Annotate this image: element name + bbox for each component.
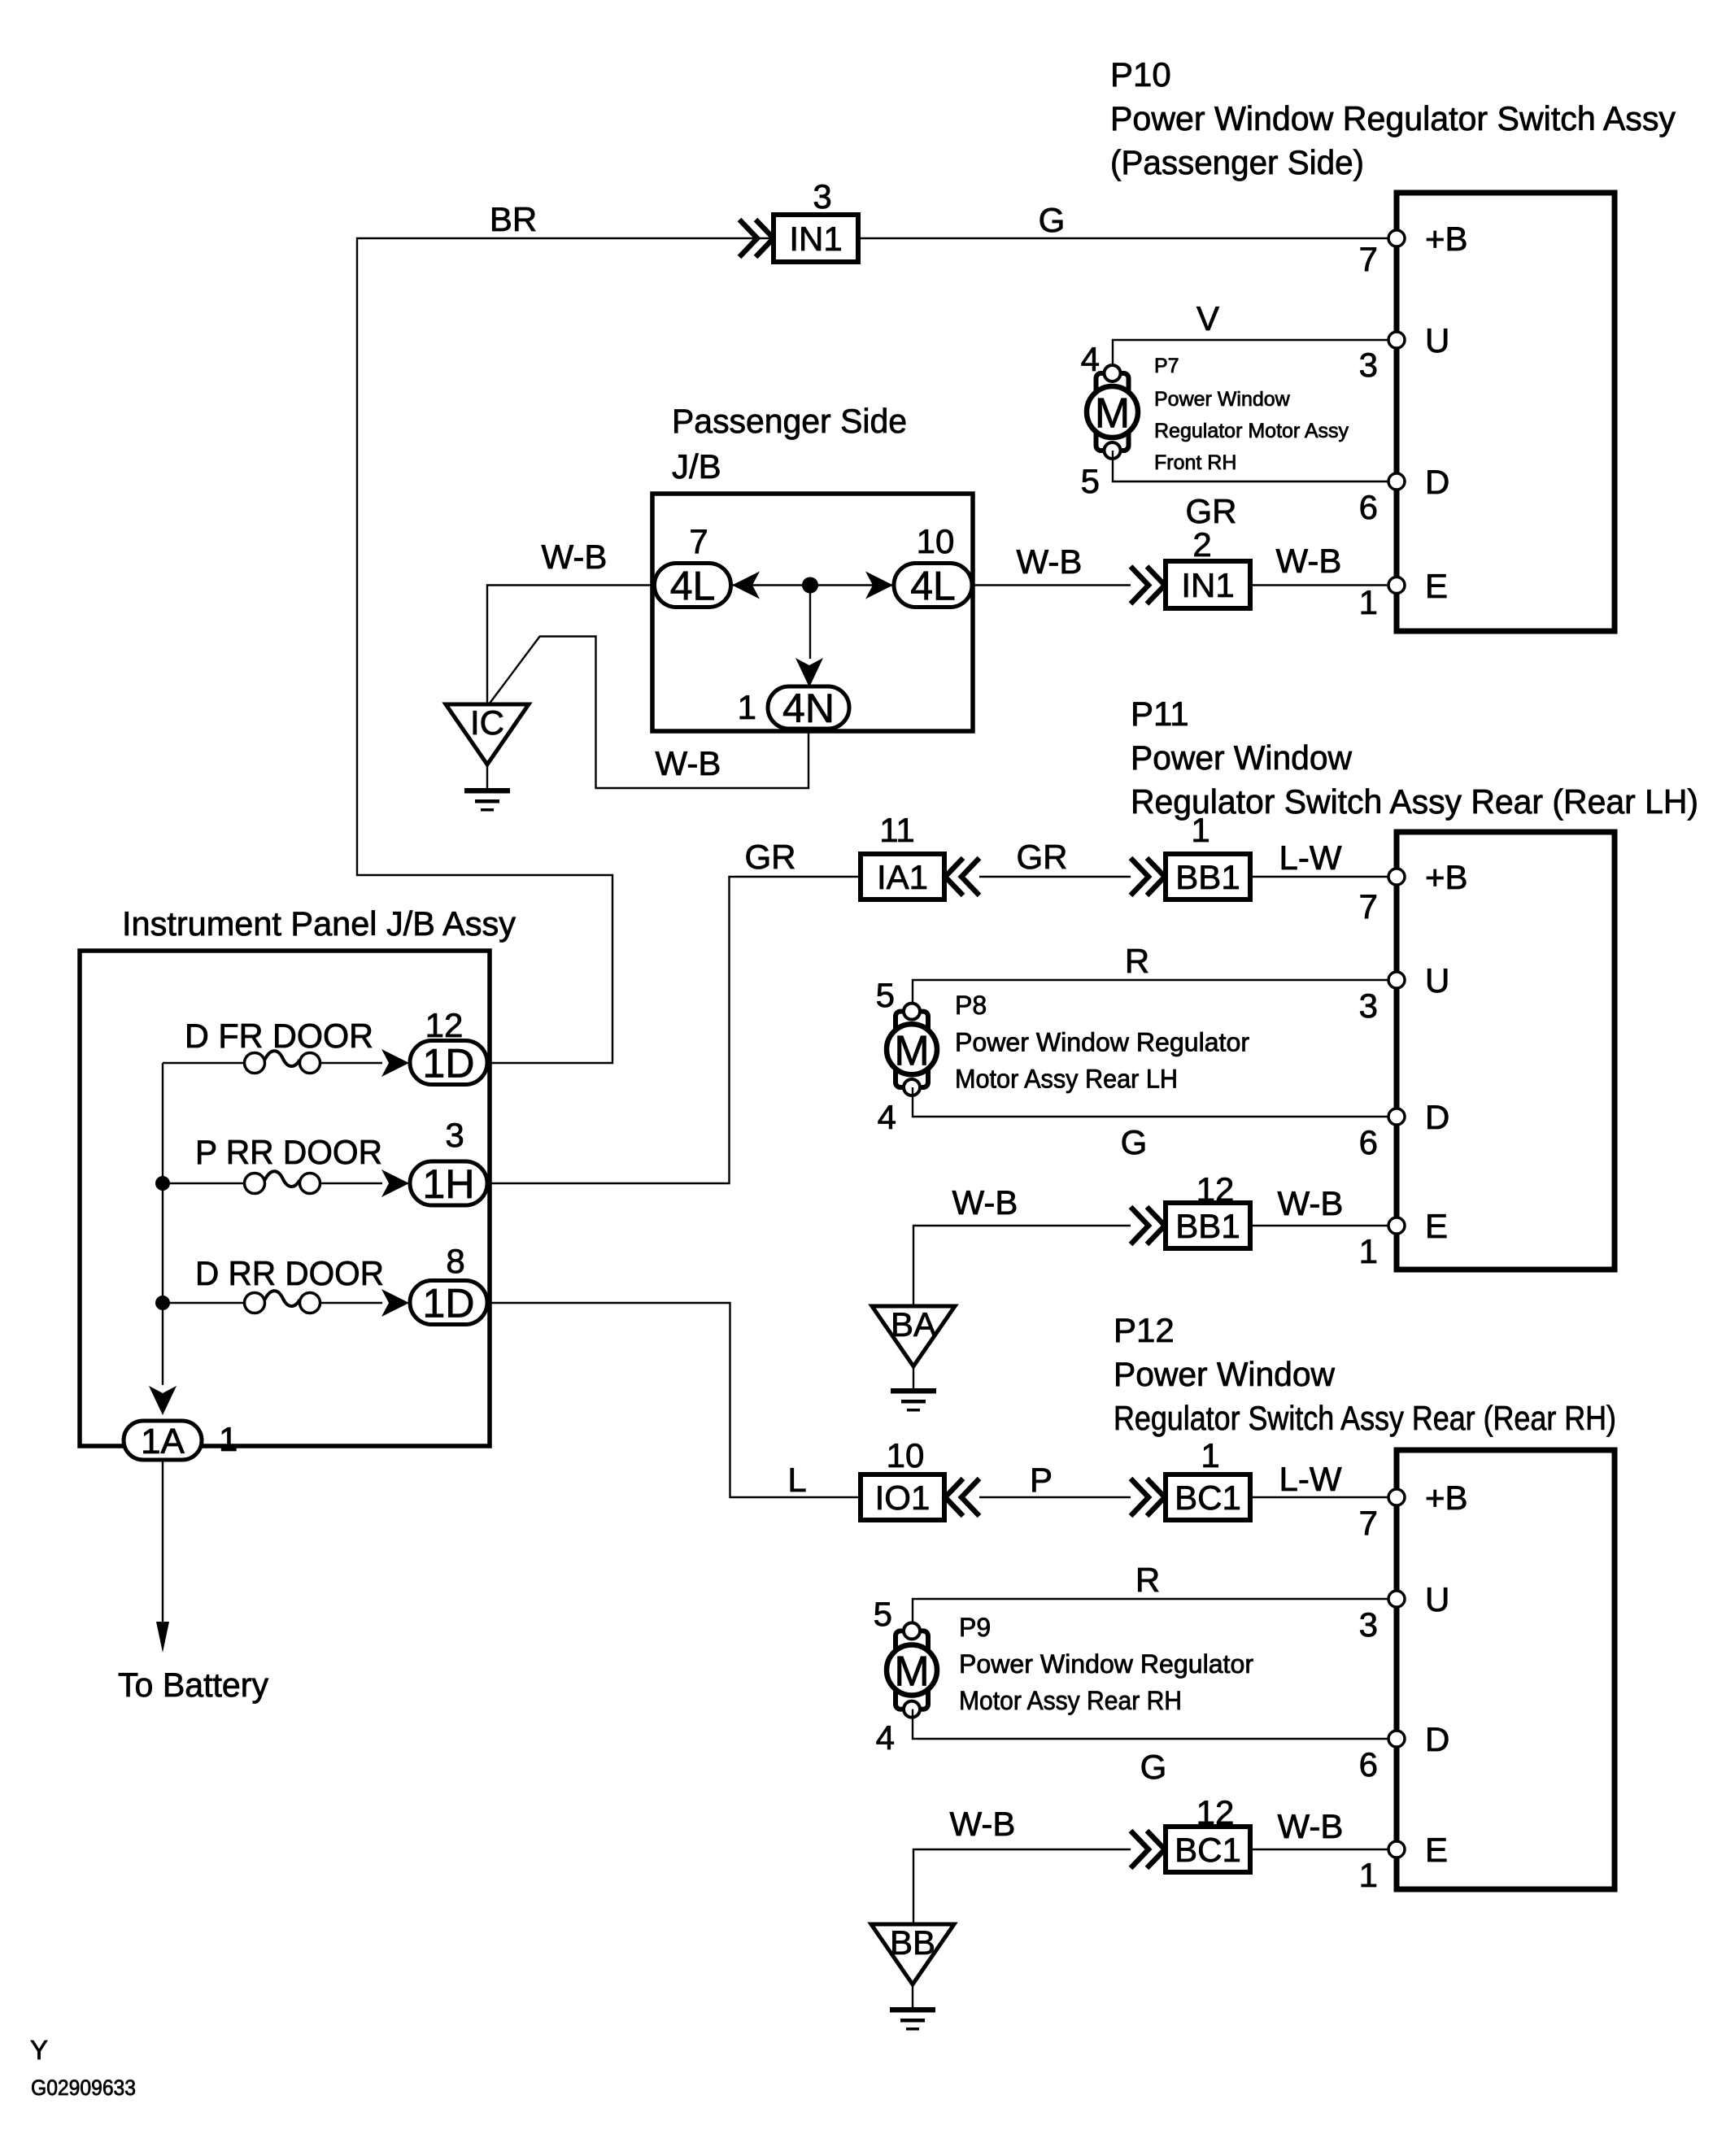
connector oval 1D pin 8 [410,1281,487,1325]
svg-text:(Passenger Side): (Passenger Side) [1110,143,1364,181]
connector IN1 pin 2 [1166,561,1250,608]
svg-text:3: 3 [1359,987,1378,1025]
svg-text:D: D [1425,1720,1449,1758]
arrow into 4L-7 [732,572,760,599]
svg-text:R: R [1125,942,1149,980]
svg-text:V: V [1196,299,1219,338]
splice chevrons into BC1-12 [1131,1831,1165,1868]
svg-text:R: R [1135,1561,1160,1599]
svg-text:W-B: W-B [1276,542,1342,580]
svg-text:5: 5 [1081,462,1100,500]
splice chevrons out of IO1 [945,1479,979,1516]
svg-text:4L: 4L [670,564,716,609]
svg-text:GR: GR [745,838,796,876]
ground symbol BB [890,2007,935,2013]
pin +B P11 [1388,869,1405,885]
splice chevrons out of IA1 [945,858,979,895]
ground symbol IC [464,788,510,794]
svg-text:G: G [1039,201,1066,239]
connector oval 1H pin 3 [410,1161,487,1205]
svg-text:E: E [1425,1207,1448,1245]
wire 1A to battery [162,1460,163,1623]
svg-text:M: M [1095,390,1130,438]
svg-text:1: 1 [738,688,756,726]
svg-text:Power Window: Power Window [1154,388,1291,411]
svg-text:1D: 1D [423,1041,475,1087]
svg-text:D FR DOOR: D FR DOOR [185,1017,373,1055]
svg-text:1: 1 [1191,811,1210,849]
ground symbol BA [891,1388,936,1394]
svg-text:1: 1 [1201,1436,1219,1474]
svg-text:IA1: IA1 [877,858,928,896]
svg-text:1A: 1A [141,1422,185,1461]
svg-text:P11: P11 [1131,695,1189,733]
junction block Passenger Side J/B body [652,494,973,731]
svg-text:BR: BR [490,200,537,238]
svg-text:+B: +B [1425,858,1468,896]
connector IN1 pin 3 [774,215,858,262]
svg-text:+B: +B [1425,1479,1468,1517]
wire G from IN1 to +B [858,237,1394,239]
arrow to battery [156,1622,169,1653]
wire row D RR DOOR [163,1302,245,1304]
pin E P10 [1388,577,1405,594]
connector P10 body [1397,193,1615,631]
svg-text:IN1: IN1 [789,220,842,258]
svg-text:E: E [1425,1831,1448,1869]
wire L-W from BC1 to +B P12 [1250,1496,1394,1498]
svg-text:W-B: W-B [952,1183,1018,1222]
svg-text:P12: P12 [1114,1311,1175,1349]
svg-text:BB1: BB1 [1175,1207,1240,1245]
connector P12 body [1397,1450,1615,1889]
junction dot bus row3 [155,1296,170,1310]
svg-text:E: E [1425,567,1448,605]
svg-text:+B: +B [1425,220,1468,258]
svg-text:BA: BA [891,1305,936,1344]
svg-text:4: 4 [878,1098,896,1136]
svg-text:P RR DOOR: P RR DOOR [195,1133,382,1171]
connector oval 1A pin 1 [124,1421,202,1460]
junction dot node 4N [802,577,818,594]
svg-text:L-W: L-W [1279,1460,1342,1498]
wire bus to 1A [162,1063,163,1385]
svg-text:7: 7 [1359,240,1378,278]
connector BC1 pin 1 [1166,1474,1250,1520]
svg-text:8: 8 [446,1242,464,1280]
svg-text:U: U [1425,321,1449,359]
ground triangle IC [446,704,529,764]
splice chevrons into BB1-12 [1131,1207,1165,1244]
svg-text:2: 2 [1192,525,1211,564]
pin D P11 [1388,1108,1405,1125]
svg-text:12: 12 [425,1006,464,1044]
wire W-B from ground BA to BB1-12 [913,1226,1131,1306]
wire GR from IA1 to BB1 [979,876,1131,878]
svg-text:Instrument Panel J/B Assy: Instrument Panel J/B Assy [122,904,516,943]
wire GR from motor P7 to D [1113,451,1394,481]
splice chevrons into IN1-2 [1131,567,1165,604]
svg-text:3: 3 [1359,1605,1378,1644]
connector oval 4L pin 10 [894,564,972,608]
connector BC1 pin 12 [1166,1827,1250,1872]
connector oval 4L pin 7 [655,564,731,608]
splice chevrons into IN1-3 [739,220,774,257]
wire L from 1D-8 to IO1 [490,1303,861,1497]
svg-text:7: 7 [1359,887,1378,926]
svg-text:P9: P9 [959,1613,991,1642]
splice chevrons into BB1-1 [1131,858,1165,895]
svg-text:1: 1 [1359,583,1378,621]
svg-text:P7: P7 [1154,355,1179,377]
pin D P12 [1388,1731,1405,1747]
pin +B P12 [1388,1489,1405,1505]
svg-text:4: 4 [1081,340,1100,378]
svg-text:1: 1 [1359,1232,1378,1270]
svg-text:U: U [1425,1580,1449,1618]
motor P7 Power Window Regulator Motor Assy Front RH [1096,373,1129,451]
svg-text:6: 6 [1359,1123,1378,1161]
svg-text:D: D [1425,463,1449,501]
svg-text:Motor Assy Rear RH: Motor Assy Rear RH [959,1686,1182,1715]
wire row D FR DOOR [163,1062,245,1064]
wire W-B from ground BB to BC1-12 [913,1849,1131,1924]
svg-text:W-B: W-B [542,538,608,576]
svg-text:GR: GR [1186,492,1237,530]
wire W-B from BB1-12 to E P11 [1250,1225,1394,1226]
svg-text:BC1: BC1 [1175,1479,1241,1517]
svg-text:Power Window Regulator: Power Window Regulator [959,1649,1253,1679]
connector oval 1D pin 12 [410,1041,487,1085]
svg-text:Motor Assy Rear LH: Motor Assy Rear LH [955,1065,1178,1094]
wire V from motor P7 to U [1113,340,1394,373]
wire row P RR DOOR [163,1183,245,1184]
svg-text:G: G [1121,1123,1148,1161]
arrow into 1H-3 [381,1169,409,1197]
connector oval 4N pin 1 [768,686,849,729]
arrow down into 4N [795,658,823,687]
svg-text:W-B: W-B [1017,542,1083,581]
svg-text:BB: BB [890,1923,935,1962]
svg-text:W-B: W-B [656,744,721,782]
pin U P11 [1388,972,1405,988]
wire dot down to 4N [809,586,811,660]
svg-text:IN1: IN1 [1181,566,1234,604]
svg-text:W-B: W-B [1278,1807,1344,1845]
ground triangle BA [872,1306,955,1366]
svg-text:BB1: BB1 [1175,858,1240,896]
wire W-B from BC1-12 to E P12 [1250,1849,1394,1850]
svg-text:P: P [1030,1461,1053,1499]
fuse D FR DOOR [245,1053,265,1074]
connector IA1 pin 11 [861,854,944,899]
connector BB1 pin 1 [1166,854,1250,899]
wire W-B from IN1-2 to E [1250,584,1394,586]
wire BA to ground [913,1366,914,1389]
svg-text:Passenger Side: Passenger Side [672,402,907,440]
wire W-B from 4L-10 to IN1-2 [973,584,1131,586]
svg-text:5: 5 [876,976,895,1014]
wire R from motor P8 to U P11 [913,980,1394,1003]
svg-text:J/B: J/B [672,447,721,486]
ground triangle BB [871,1924,954,1984]
arrow into 4L-10 [865,572,893,599]
svg-text:U: U [1425,961,1449,1000]
svg-text:4L: 4L [910,564,956,609]
svg-text:4: 4 [876,1718,895,1757]
svg-text:P8: P8 [955,991,987,1020]
svg-text:11: 11 [879,811,915,849]
wire G from motor P8 to D P11 [913,1087,1394,1117]
svg-text:1D: 1D [423,1281,475,1326]
motor P9 Power Window Regulator Motor Assy Rear RH [896,1631,928,1709]
svg-text:3: 3 [813,177,831,216]
wire GR from 1H to IA1 [490,877,861,1183]
svg-text:G: G [1140,1748,1167,1786]
arrow into 1D-12 [381,1049,409,1077]
svg-text:Front RH: Front RH [1154,451,1236,474]
svg-text:1H: 1H [423,1161,475,1207]
wire BR net from Instrument Panel 1D to IN1 [357,238,774,1063]
connector P11 body [1397,832,1615,1270]
svg-text:To Battery: To Battery [118,1666,268,1704]
svg-text:Regulator Motor Assy: Regulator Motor Assy [1154,420,1349,442]
svg-text:Power Window: Power Window [1131,738,1353,777]
svg-text:D RR DOOR: D RR DOOR [195,1254,384,1292]
svg-text:10: 10 [917,522,955,560]
svg-text:1: 1 [219,1420,238,1458]
svg-text:L: L [787,1461,806,1499]
svg-text:L-W: L-W [1279,838,1342,877]
connector BB1 pin 12 [1166,1203,1250,1248]
svg-text:M: M [894,1649,929,1696]
wire R from motor P9 to U P12 [913,1599,1394,1622]
wire W-B from 4L-7 to ground IC [487,586,655,705]
svg-text:W-B: W-B [950,1805,1016,1843]
splice chevrons into BC1-1 [1131,1479,1165,1516]
svg-text:P10: P10 [1110,55,1171,94]
svg-text:3: 3 [445,1116,464,1154]
arrow down into 1A [149,1386,177,1415]
svg-text:Power Window: Power Window [1114,1355,1336,1393]
svg-text:W-B: W-B [1278,1184,1344,1222]
svg-text:IO1: IO1 [875,1479,931,1517]
wire G from motor P9 to D P12 [913,1710,1394,1739]
svg-text:6: 6 [1359,1745,1378,1784]
wire IC to ground [486,764,488,788]
svg-text:D: D [1425,1098,1449,1136]
arrow into 1D-8 [381,1289,409,1317]
pin +B P10 [1388,230,1405,246]
svg-text:Regulator Switch Assy Rear (Re: Regulator Switch Assy Rear (Rear LH) [1131,782,1698,821]
fuse P RR DOOR [245,1174,265,1194]
wire W-B from 4N to ground IC [489,637,809,789]
svg-text:7: 7 [689,522,708,560]
connector IO1 pin 10 [861,1474,944,1520]
junction dot bus row2 [155,1176,170,1191]
svg-text:5: 5 [874,1595,892,1633]
svg-text:6: 6 [1359,488,1378,526]
svg-text:7: 7 [1359,1504,1378,1542]
fuse D RR DOOR [245,1293,265,1313]
wire inside J/B [732,584,892,586]
wire BB to ground [912,1984,913,2007]
pin U P12 [1388,1591,1405,1607]
svg-text:4N: 4N [782,686,835,731]
svg-text:IC: IC [470,703,504,742]
wire P from IO1 to BC1 [979,1496,1131,1498]
pin D P10 [1388,473,1405,490]
svg-text:Y: Y [30,2035,48,2065]
svg-text:M: M [894,1027,929,1074]
svg-text:GR: GR [1017,838,1068,876]
svg-text:BC1: BC1 [1175,1831,1241,1869]
svg-text:10: 10 [887,1436,925,1474]
svg-text:1: 1 [1359,1856,1378,1894]
svg-text:Power Window Regulator: Power Window Regulator [955,1028,1249,1057]
svg-text:Power Window Regulator Switch: Power Window Regulator Switch Assy [1110,99,1676,137]
pin U P10 [1388,332,1405,348]
svg-text:3: 3 [1359,346,1378,384]
pin E P12 [1388,1841,1405,1858]
wire L-W from BB1 to +B P11 [1250,876,1394,878]
junction block Instrument Panel J/B body [80,951,490,1446]
svg-text:G02909633: G02909633 [31,2075,136,2100]
motor P8 Power Window Regulator Motor Assy Rear LH [896,1012,928,1087]
pin E P11 [1388,1217,1405,1234]
svg-text:Regulator Switch Assy Rear (Re: Regulator Switch Assy Rear (Rear RH) [1114,1399,1616,1437]
